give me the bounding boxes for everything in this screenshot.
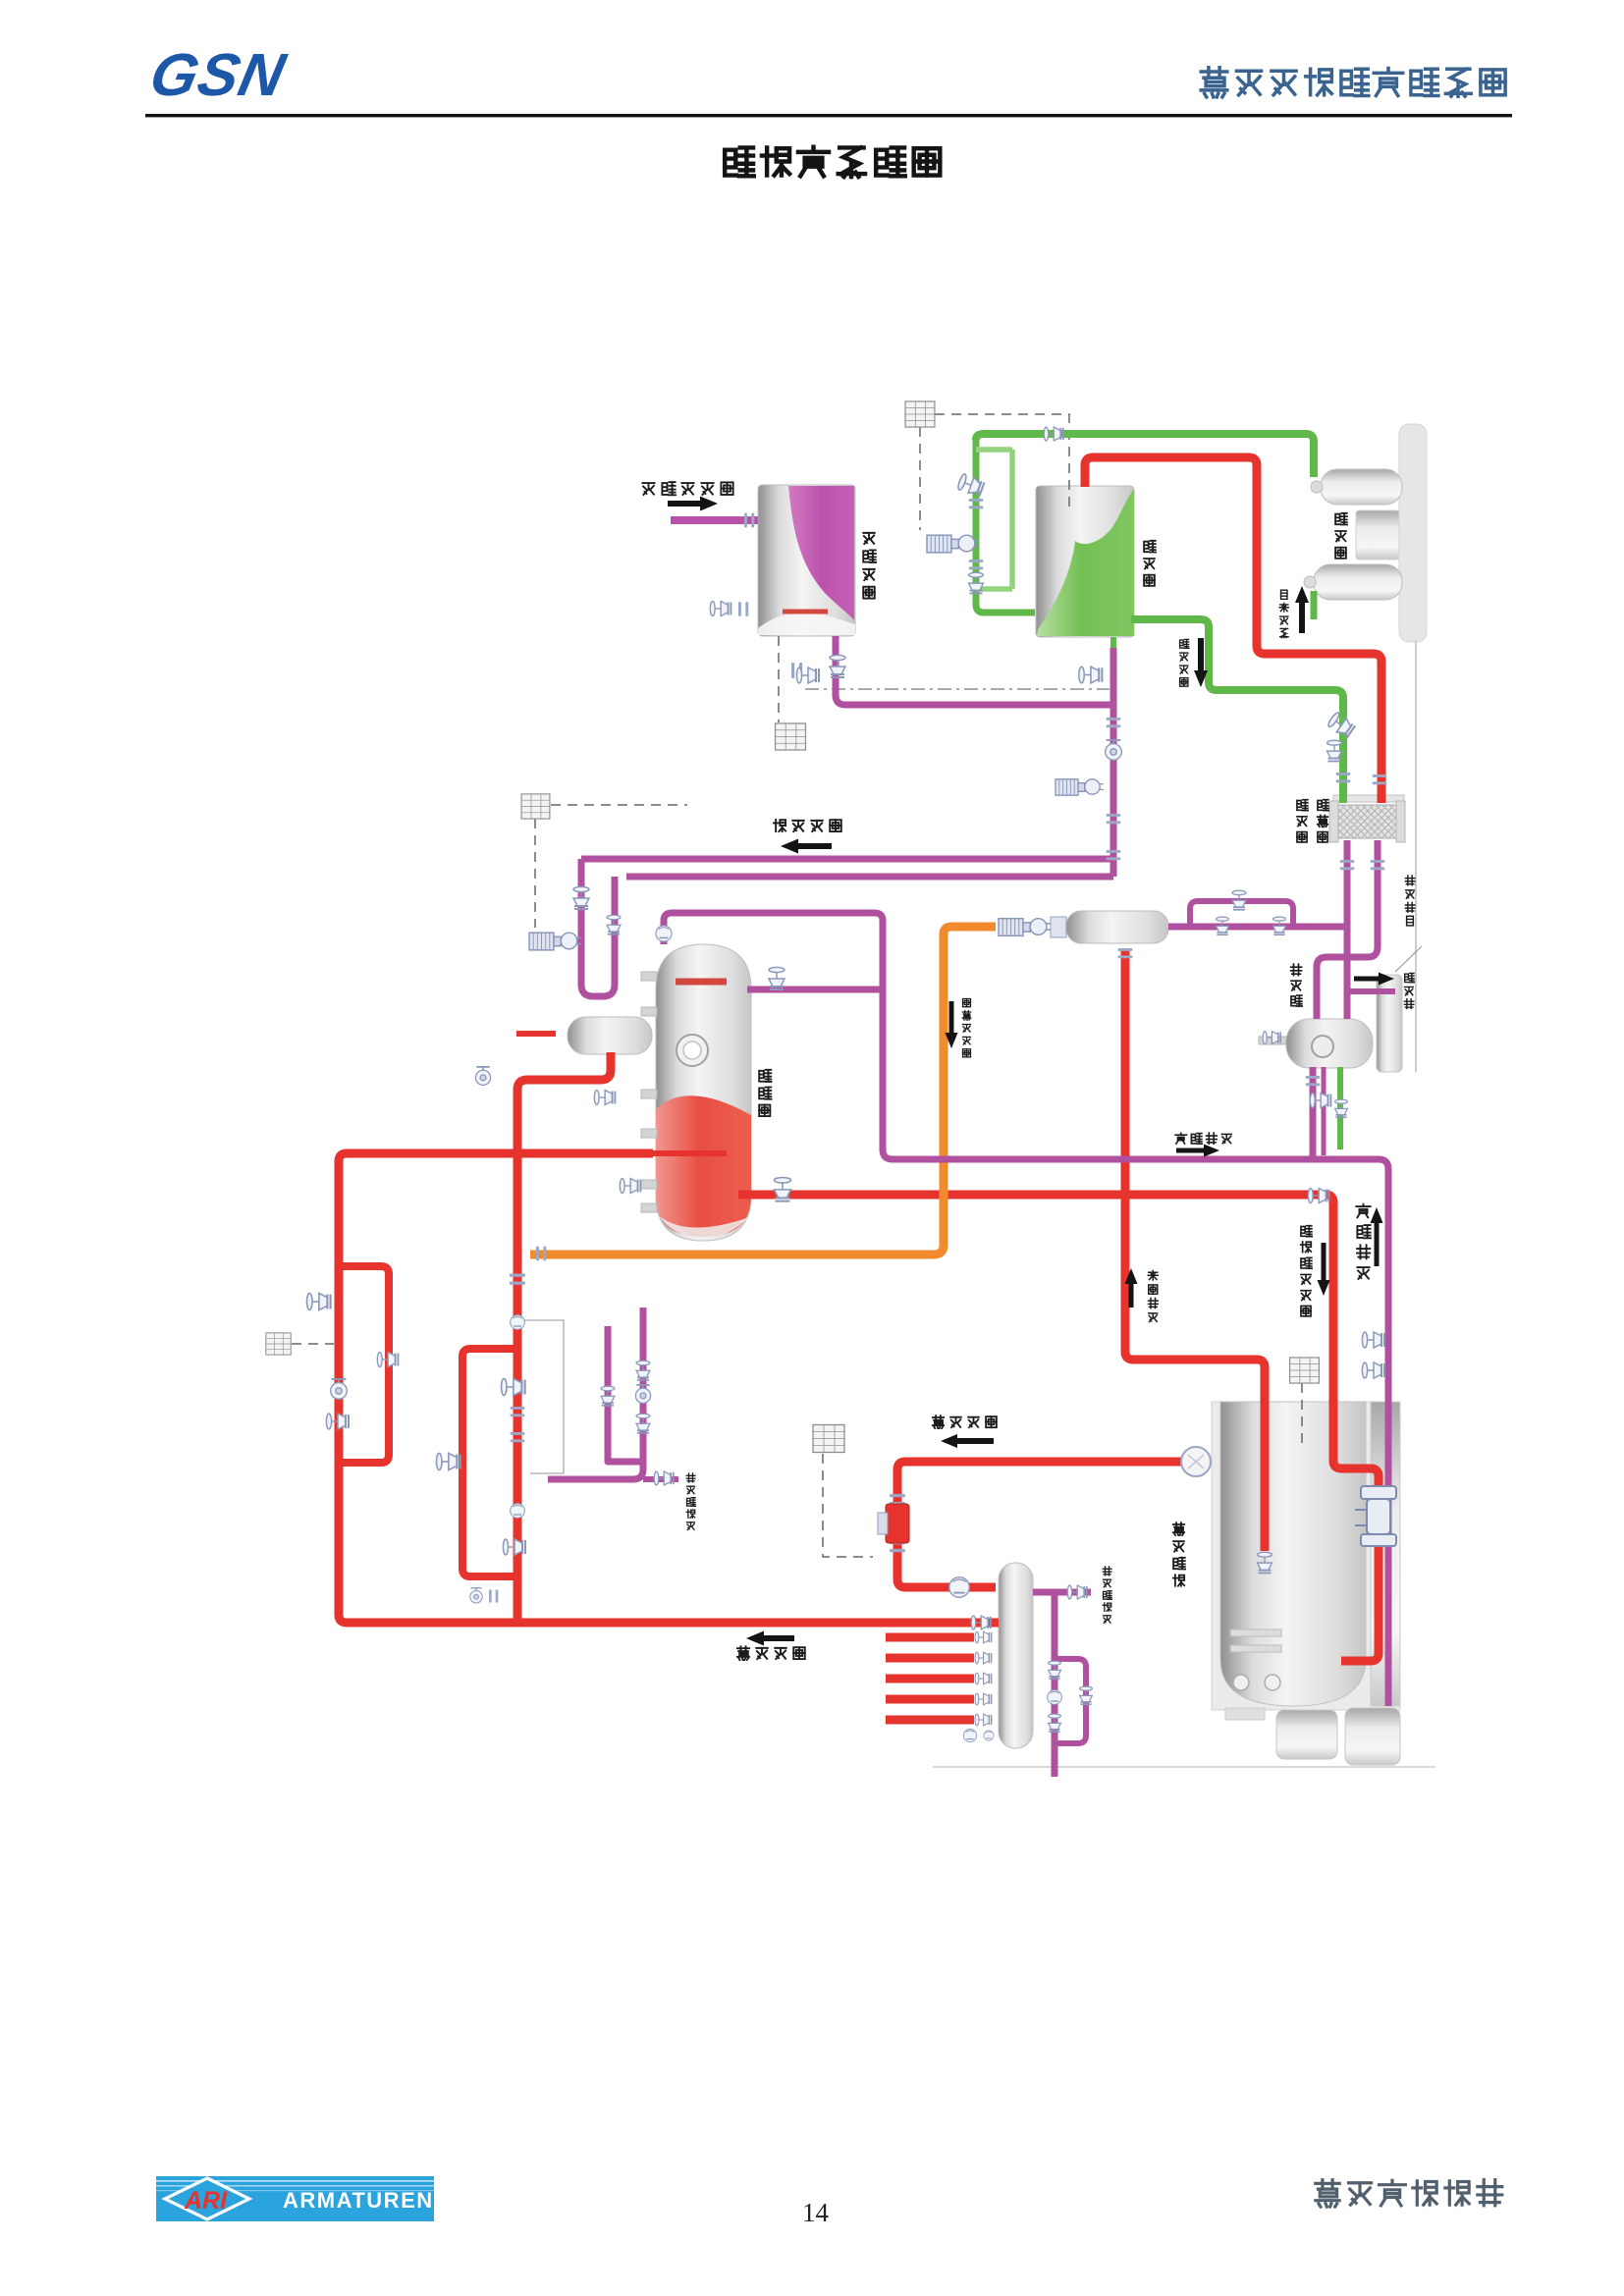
svg-text:ARMATUREN: ARMATUREN <box>283 2188 434 2213</box>
svg-text:GSN: GSN <box>144 42 292 109</box>
svg-text:14: 14 <box>802 2198 830 2227</box>
svg-text:ARI: ARI <box>184 2187 228 2215</box>
